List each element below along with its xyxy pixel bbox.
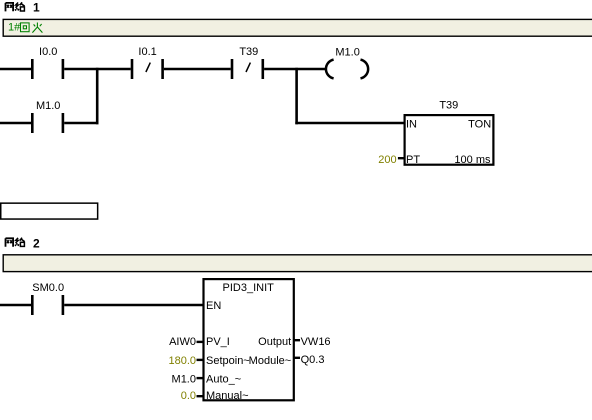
wire: network 1 row 2 left rail to M1.0 contact xyxy=(0,122,31,125)
pin stub PV_I xyxy=(197,341,204,343)
svg-text:SM0.0: SM0.0 xyxy=(32,282,64,294)
svg-text:100 ms: 100 ms xyxy=(454,154,491,166)
contact T39 (NC) xyxy=(231,46,264,79)
PID3_INIT box xyxy=(204,279,294,402)
wire: timer branch vertical xyxy=(295,68,298,125)
svg-text:Q0.3: Q0.3 xyxy=(301,354,325,366)
contact M1.0 xyxy=(31,100,64,133)
svg-text:VW16: VW16 xyxy=(301,336,331,348)
wire: SM0.0 to PID3_INIT EN xyxy=(64,304,204,307)
svg-text:Setpoin~: Setpoin~ xyxy=(206,355,250,367)
svg-text:PID3_INIT: PID3_INIT xyxy=(223,282,275,294)
network 1 heading glyph 网 xyxy=(6,3,14,12)
wire: M1.0 contact to OR junction xyxy=(64,122,98,125)
svg-text:IN: IN xyxy=(406,119,417,131)
svg-text:1#: 1# xyxy=(8,22,21,34)
pin stub Auto_~ xyxy=(197,377,204,379)
wire: network 2 left rail to SM0.0 xyxy=(0,304,31,307)
wire: network 1 row 1 left rail to I0.0 xyxy=(0,68,31,71)
timer box T39 TON xyxy=(405,100,494,166)
network 2 heading glyph 络 xyxy=(15,238,25,247)
svg-text:TON: TON xyxy=(468,119,491,131)
svg-text:Output: Output xyxy=(258,336,291,348)
network 1 comment bar xyxy=(3,19,592,36)
pin stub PT xyxy=(398,157,404,159)
svg-text:1: 1 xyxy=(33,0,40,14)
network 1 heading glyph 络 xyxy=(15,2,25,11)
svg-text:180.0: 180.0 xyxy=(168,355,196,367)
wire: T39 contact to coil M1.0 xyxy=(264,68,326,71)
svg-text:Manual~: Manual~ xyxy=(206,390,249,402)
empty comment box xyxy=(1,203,98,219)
wire: I0.0 to I0.1 xyxy=(64,68,131,71)
network 1 comment glyph 火 xyxy=(32,23,42,33)
svg-text:T39: T39 xyxy=(239,46,258,58)
svg-text:AIW0: AIW0 xyxy=(169,336,196,348)
svg-text:M1.0: M1.0 xyxy=(335,47,359,59)
contact I0.1 (NC) xyxy=(131,46,164,79)
wire: OR junction vertical xyxy=(96,68,99,125)
svg-text:0.0: 0.0 xyxy=(181,390,196,402)
svg-text:2: 2 xyxy=(33,236,40,250)
coil M1.0 xyxy=(326,47,368,79)
network 2 heading glyph 网 xyxy=(6,238,14,247)
svg-text:200: 200 xyxy=(378,154,396,166)
svg-text:T39: T39 xyxy=(439,100,458,112)
svg-text:M1.0: M1.0 xyxy=(36,100,60,112)
svg-text:I0.1: I0.1 xyxy=(138,46,156,58)
svg-text:Auto_~: Auto_~ xyxy=(206,373,241,385)
network 2 comment bar xyxy=(3,255,592,272)
svg-text:EN: EN xyxy=(206,300,221,312)
pin stub Output xyxy=(294,339,301,341)
wire: timer branch to T39 box IN xyxy=(295,122,404,125)
svg-text:I0.0: I0.0 xyxy=(39,46,57,58)
svg-text:M1.0: M1.0 xyxy=(172,373,196,385)
svg-text:PT: PT xyxy=(406,154,420,166)
contact SM0.0 xyxy=(31,282,64,315)
svg-text:Module~: Module~ xyxy=(249,355,292,367)
pin stub Manual~ xyxy=(197,395,204,397)
svg-text:PV_I: PV_I xyxy=(206,336,230,348)
pin stub Module~ xyxy=(294,357,301,359)
contact I0.0 xyxy=(31,46,64,79)
network 1 comment glyph 回 xyxy=(21,23,30,32)
pin stub Setpoin~ xyxy=(197,359,204,361)
wire: I0.1 to T39 contact xyxy=(164,68,231,71)
